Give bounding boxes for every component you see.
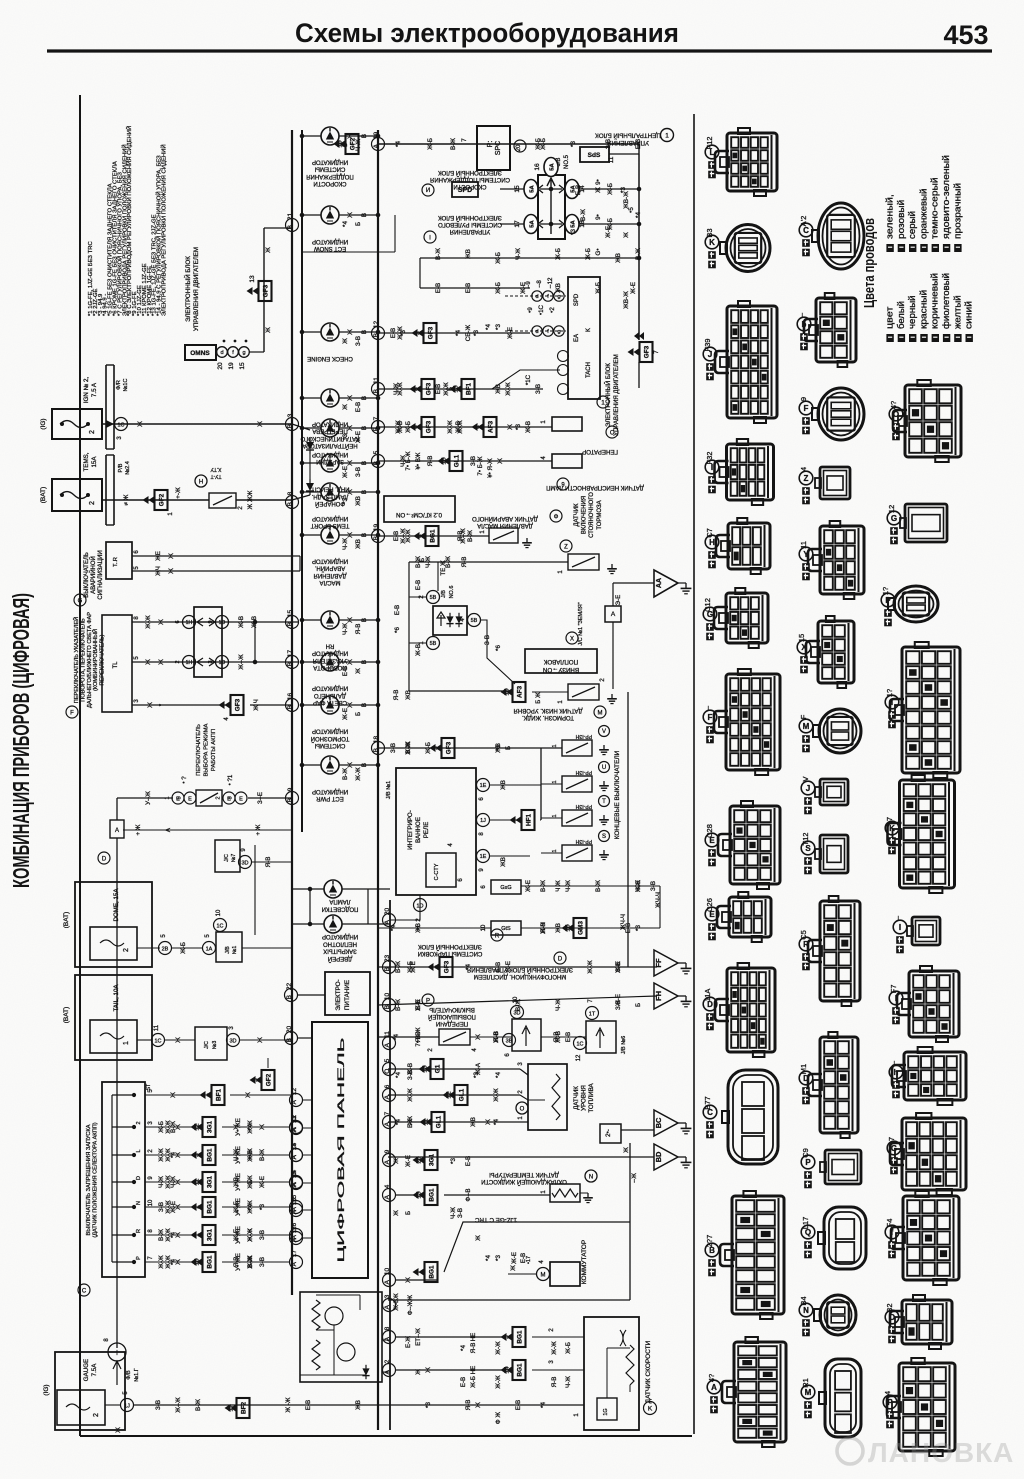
- svg-text:GM3: GM3: [577, 921, 584, 935]
- svg-text:Ж: Ж: [170, 1092, 177, 1098]
- svg-text:НЕ: НЕ: [470, 1333, 477, 1342]
- svg-text:ВЫКЛЮЧАТЕЛЬ ЗАПРЕЩЕНИЯ ЗАПУСКА: ВЫКЛЮЧАТЕЛЬ ЗАПРЕЩЕНИЯ ЗАПУСКА: [86, 1124, 92, 1235]
- svg-text:B: B: [373, 389, 380, 393]
- svg-text:B: B: [373, 427, 380, 431]
- svg-text:(BAT): (BAT): [63, 1007, 70, 1024]
- svg-text:Е-В: Е-В: [520, 1253, 527, 1263]
- svg-text:Ч-Ж: Ч-Ж: [355, 139, 362, 151]
- svg-text:З-В: З-В: [158, 1202, 165, 1212]
- svg-text:Ж: Ж: [347, 489, 354, 495]
- svg-text:FH: FH: [654, 991, 663, 1001]
- svg-text:В-Ж: В-Ж: [342, 768, 349, 780]
- svg-text:Е-В: Е-В: [465, 1156, 472, 1166]
- svg-text:*4: *4: [247, 1124, 254, 1130]
- svg-text:Е-В: Е-В: [415, 580, 422, 590]
- svg-text:ТОРМОЗН. ЖИДК.: ТОРМОЗН. ЖИДК.: [522, 714, 574, 720]
- svg-text:ЖВ: ЖВ: [615, 253, 622, 263]
- svg-text:G1: G1: [434, 1064, 441, 1073]
- svg-text:(КОМБИНИРОВАННЫЙ: (КОМБИНИРОВАННЫЙ: [91, 629, 99, 691]
- svg-text:№1C: №1C: [123, 379, 129, 392]
- svg-text:В-Ж: В-Ж: [170, 1121, 177, 1133]
- svg-text:Ч-Ж: Ч-Ж: [393, 383, 400, 395]
- svg-text:*3: *3: [259, 1204, 266, 1210]
- svg-text:J/C: J/C: [224, 854, 230, 862]
- svg-text:У--Ж: У--Ж: [145, 791, 152, 805]
- svg-text:BG1: BG1: [206, 1200, 213, 1214]
- svg-text:GxG: GxG: [500, 885, 511, 891]
- svg-text:И: И: [426, 188, 430, 194]
- svg-text:В-Ж: В-Ж: [195, 1399, 202, 1411]
- svg-text:Ж: Ж: [425, 1367, 432, 1373]
- svg-text:№3: №3: [212, 1041, 218, 1050]
- svg-text:Ж: Ж: [145, 659, 152, 665]
- svg-text:N: N: [136, 1201, 142, 1205]
- svg-text:*4: *4: [247, 1204, 254, 1210]
- svg-text:BC: BC: [654, 1117, 663, 1128]
- svg-text:Ж-ВЖ: Ж-ВЖ: [393, 1293, 400, 1311]
- svg-text:ЖВ: ЖВ: [233, 1177, 240, 1187]
- svg-text:BG1: BG1: [428, 1265, 435, 1279]
- svg-text:Ч-Ж: Ч-Ж: [565, 880, 572, 892]
- svg-text:РР-IЗН: РР-IЗН: [575, 769, 592, 775]
- svg-text:розовый: розовый: [896, 200, 907, 239]
- svg-text:Б: Б: [505, 746, 512, 750]
- svg-text:синий: синий: [964, 301, 975, 329]
- svg-text:ЖВ: ЖВ: [405, 690, 412, 700]
- svg-text:F: F: [70, 711, 74, 717]
- svg-text:S: S: [602, 834, 606, 840]
- svg-text:C-CTY: C-CTY: [434, 863, 440, 880]
- svg-text:Я-В: Я-В: [465, 1400, 472, 1411]
- svg-text:ПЕРЕКЛЮЧАТЕЛЬ): ПЕРЕКЛЮЧАТЕЛЬ): [100, 634, 106, 685]
- svg-text:Ф--В: Ф--В: [465, 1189, 472, 1202]
- svg-text:ЭЛЕКТРОПРИВОДА РЕГУЛИРОВКИ ПОЛ: ЭЛЕКТРОПРИВОДА РЕГУЛИРОВКИ ПОЛОЖЕНИЯ СИД…: [160, 144, 168, 316]
- svg-text:7.5A: 7.5A: [91, 1363, 98, 1377]
- svg-text:3: 3: [228, 796, 234, 799]
- svg-text:Ч-Ж: Ч-Ж: [342, 538, 349, 550]
- svg-text:1: 1: [552, 849, 558, 852]
- svg-text:Схемы электрооборудования: Схемы электрооборудования: [295, 18, 679, 48]
- svg-text:B3: B3: [705, 228, 714, 237]
- svg-text:Ж-Е: Ж-Е: [525, 880, 532, 892]
- svg-text:Е-В: Е-В: [435, 283, 442, 293]
- svg-text:1J: 1J: [124, 1404, 130, 1410]
- svg-text:№1.Г: №1.Г: [134, 1368, 140, 1381]
- svg-text:ОХЛАЖДАЮЩЕЙ ЖИДКОСТИ: ОХЛАЖДАЮЩЕЙ ЖИДКОСТИ: [481, 1178, 567, 1186]
- svg-text:Я-В: Я-В: [265, 857, 272, 868]
- svg-text:SPD: SPD: [574, 293, 580, 306]
- svg-text:серый: серый: [907, 211, 918, 239]
- svg-text:4: 4: [799, 467, 808, 471]
- svg-text:З-В: З-В: [605, 139, 612, 149]
- svg-text:Ж: Ж: [347, 617, 354, 623]
- svg-text:J/B: J/B: [441, 590, 447, 598]
- svg-text:1: 1: [552, 814, 558, 817]
- svg-text:Ф/R: Ф/R: [116, 380, 122, 390]
- svg-text:*3: *3: [495, 745, 502, 751]
- svg-text:ПИТАНИЕ: ПИТАНИЕ: [344, 980, 351, 1010]
- svg-text:A: A: [611, 611, 616, 618]
- svg-text:ВЫКЛЮЧАТЕЛЬ: ВЫКЛЮЧАТЕЛЬ: [429, 1006, 475, 1012]
- svg-text:Ж-Е: Ж-Е: [511, 1252, 518, 1264]
- svg-text:1C: 1C: [576, 1042, 583, 1048]
- svg-text:M: M: [541, 1273, 546, 1279]
- svg-text:SPC: SPC: [495, 141, 502, 155]
- svg-text:E: E: [188, 797, 192, 803]
- svg-text:Ж: Ж: [265, 247, 272, 253]
- svg-text:20: 20: [384, 908, 391, 916]
- svg-text:В: В: [361, 330, 368, 334]
- svg-text:НЕ: НЕ: [470, 1366, 477, 1375]
- svg-text:*4: *4: [393, 1034, 400, 1040]
- svg-text:1?: 1?: [881, 587, 890, 595]
- svg-text:Ж-Е: Ж-Е: [355, 431, 362, 443]
- svg-text:З--Е: З--Е: [257, 792, 264, 804]
- svg-text:ЖВ: ЖВ: [495, 384, 502, 394]
- svg-text:Ж-Е: Ж-Е: [630, 282, 637, 294]
- svg-text:RH: RH: [326, 642, 335, 648]
- svg-text:K: K: [648, 1406, 653, 1413]
- svg-text:G•: G•: [595, 249, 602, 256]
- svg-text:BG1: BG1: [206, 1148, 213, 1162]
- svg-text:Ж: Ж: [393, 1158, 400, 1164]
- svg-text:Б: Б: [247, 1180, 254, 1184]
- svg-text:В-Ж: В-Ж: [247, 1256, 254, 1268]
- svg-text:B2: B2: [885, 1303, 894, 1312]
- svg-text:C9: C9: [801, 1148, 810, 1158]
- svg-text:ST: ST: [146, 1084, 152, 1090]
- svg-text:МАСЛА: МАСЛА: [320, 579, 341, 585]
- svg-text:CHECK ENGINE: CHECK ENGINE: [307, 355, 353, 361]
- svg-text:ЕТ--Ж: ЕТ--Ж: [415, 1328, 422, 1346]
- svg-text:Ж-Ж: Ж-Ж: [158, 1148, 165, 1162]
- svg-text:¥• Я-Ж: ¥• Я-Ж: [487, 458, 494, 478]
- svg-text:В-Ж: В-Ж: [467, 530, 474, 542]
- svg-text:В: В: [361, 213, 368, 217]
- svg-text:20: 20: [286, 1026, 293, 1034]
- svg-text:Я-В: Я-В: [415, 1032, 422, 1043]
- svg-text:2: 2: [89, 501, 96, 505]
- svg-text:ДАТЧИК СКОРОСТИ: ДАТЧИК СКОРОСТИ: [645, 1340, 652, 1403]
- svg-text:F: F: [799, 714, 808, 719]
- svg-text:BF2: BF2: [240, 1402, 247, 1415]
- svg-text:A: A: [291, 1099, 298, 1104]
- svg-text:12: 12: [291, 1088, 298, 1096]
- svg-text:Ж-Е: Ж-Е: [342, 708, 349, 720]
- svg-text:A: A: [384, 1159, 391, 1164]
- svg-text:Я-В: Я-В: [461, 557, 468, 568]
- svg-text:(ДАТЧИК ПОЛОЖЕНИЯ СЕЛЕКТОРА АК: (ДАТЧИК ПОЛОЖЕНИЯ СЕЛЕКТОРА АКПП): [93, 1122, 99, 1237]
- svg-text:В-Ж: В-Ж: [635, 248, 642, 260]
- svg-text:5: 5: [384, 1058, 391, 1062]
- svg-text:b: b: [802, 320, 807, 329]
- svg-text:K: K: [889, 824, 895, 833]
- svg-text:GL1: GL1: [435, 1115, 442, 1128]
- svg-text:В-Ж: В-Ж: [540, 880, 547, 892]
- svg-text:(IG): (IG): [40, 418, 47, 429]
- svg-text:10: 10: [148, 1199, 154, 1206]
- svg-text:*3: *3: [620, 187, 627, 193]
- svg-text:BG1: BG1: [206, 1255, 213, 1269]
- svg-text:1: 1: [552, 744, 558, 747]
- svg-text:Б: Б: [447, 387, 454, 391]
- svg-text:УПРАВЛЕНИЯ ДВИГАТЕЛЕМ: УПРАВЛЕНИЯ ДВИГАТЕЛЕМ: [614, 354, 620, 436]
- svg-text:2?7: 2?7: [705, 1235, 714, 1248]
- svg-text:Ж: Ж: [257, 1037, 264, 1043]
- svg-text:BG1: BG1: [429, 529, 436, 543]
- svg-text:TACH: TACH: [586, 362, 592, 378]
- svg-text:СИСТЕМЫ: СИСТЕМЫ: [315, 166, 346, 172]
- svg-text:FF: FF: [654, 958, 663, 968]
- svg-text:Ж-Ж: Ж-Ж: [355, 767, 362, 781]
- svg-text:ПОВОРОТА, ПЕРЕКЛЮЧАТЕЛЬ: ПОВОРОТА, ПЕРЕКЛЮЧАТЕЛЬ: [80, 618, 86, 702]
- svg-text:З-В: З-В: [355, 336, 362, 346]
- svg-text:ЭЛЕКТРОННЫЙ БЛОК: ЭЛЕКТРОННЫЙ БЛОК: [604, 363, 612, 427]
- svg-text:+-Ж: +-Ж: [175, 487, 182, 499]
- svg-text:Ж: Ж: [158, 619, 165, 625]
- svg-text:B77: B77: [703, 1096, 712, 1109]
- svg-text:Ж: Ж: [257, 421, 264, 427]
- svg-text:*4: *4: [170, 1259, 177, 1265]
- svg-text:20: 20: [217, 362, 224, 370]
- svg-text:g: g: [557, 329, 560, 335]
- svg-text:B: B: [373, 536, 380, 540]
- svg-text:ВЫБОРА РЕЖИМА: ВЫБОРА РЕЖИМА: [203, 723, 209, 776]
- svg-text:Ж--Ж: Ж--Ж: [238, 654, 245, 670]
- svg-text:Ч-Ж: Ч-Ж: [233, 1149, 240, 1161]
- svg-text:d: d: [220, 350, 223, 356]
- svg-text:9: 9: [287, 787, 294, 791]
- svg-text:МНОГОФУНКЦИОН. ДИСПЛЕЕМ: МНОГОФУНКЦИОН. ДИСПЛЕЕМ: [474, 973, 567, 979]
- svg-text:11: 11: [799, 541, 808, 549]
- svg-text:BG1: BG1: [428, 1188, 435, 1202]
- svg-text:ИНДИКАТОР: ИНДИКАТОР: [312, 788, 348, 794]
- svg-text:зеленый,: зеленый,: [885, 194, 896, 239]
- svg-text:черный: черный: [907, 295, 918, 329]
- svg-text:коричневый: коричневый: [930, 273, 941, 329]
- svg-text:З-В: З-В: [355, 467, 362, 477]
- svg-text:B: B: [287, 662, 294, 666]
- svg-text:7: 7: [653, 350, 660, 354]
- svg-text:GL1: GL1: [458, 1088, 465, 1101]
- svg-text:Ж-Ж: Ж-Ж: [447, 420, 454, 434]
- svg-text:Ч-Ж: Ч-Ж: [342, 623, 349, 635]
- svg-text:Я-В: Я-В: [470, 1343, 477, 1354]
- svg-text:ИНДИКАТОР: ИНДИКАТОР: [312, 238, 348, 244]
- svg-text:18: 18: [373, 736, 380, 744]
- svg-text:3G1: 3G1: [206, 1121, 213, 1134]
- svg-text:P: P: [885, 596, 891, 605]
- svg-text:№1: №1: [232, 946, 238, 955]
- svg-text:1A: 1A: [206, 947, 213, 953]
- svg-text:A: A: [115, 828, 119, 834]
- svg-text:ИНДИКАТОР: ИНДИКАТОР: [312, 515, 348, 521]
- svg-text:Ж-Е: Ж-Е: [170, 1201, 177, 1213]
- svg-text:*6: *6: [495, 645, 502, 651]
- svg-text:Ж-Ж: Ж-Ж: [587, 960, 594, 974]
- svg-text:Ж-Б: Ж-Б: [405, 421, 412, 433]
- svg-text:2: 2: [136, 1121, 142, 1124]
- svg-text:• ?: • ?: [181, 776, 188, 784]
- svg-text:*4: *4: [460, 1345, 467, 1351]
- svg-text:G: G: [78, 599, 83, 605]
- svg-text:5A: 5A: [550, 162, 556, 170]
- svg-text:A: A: [384, 1279, 391, 1284]
- svg-text:ДАТЧИК: ДАТЧИК: [573, 1086, 580, 1110]
- svg-text:КАТАЛИТИЧЕСКОГО: КАТАЛИТИЧЕСКОГО: [300, 435, 359, 441]
- svg-text:Ж: Ж: [347, 395, 354, 401]
- svg-text:Ж-Е: Ж-Е: [605, 226, 612, 238]
- svg-text:•2: •2: [549, 307, 556, 313]
- svg-text:3: 3: [384, 1294, 391, 1298]
- svg-text:В-Ж: В-Ж: [395, 999, 402, 1011]
- svg-text:З-В: З-В: [155, 1400, 162, 1410]
- svg-text:В-Ж: В-Ж: [595, 880, 602, 892]
- svg-text:15: 15: [797, 634, 806, 642]
- svg-text:9: 9: [384, 1149, 391, 1153]
- svg-text:f: f: [891, 1228, 894, 1237]
- svg-text:Ж: Ж: [510, 1265, 517, 1271]
- svg-text:Е-В: Е-В: [394, 605, 401, 615]
- svg-text:желтый: желтый: [952, 295, 963, 329]
- svg-text:Ж-Б: Ж-Б: [565, 1342, 572, 1354]
- svg-text:Б: Б: [355, 222, 362, 226]
- svg-text:фиолетовый: фиолетовый: [941, 273, 952, 329]
- svg-text:F4: F4: [885, 1219, 894, 1228]
- svg-text:1: 1: [123, 1041, 130, 1045]
- svg-text:AA: AA: [656, 578, 663, 588]
- svg-text:В-Ж: В-Ж: [445, 556, 452, 568]
- svg-text:Ж: Ж: [623, 1147, 630, 1153]
- svg-text:2: 2: [384, 1359, 391, 1363]
- svg-text:*8 С ЭЛЕКТРОПРИВОДОМ РЕГУЛИРОВ: *8 С ЭЛЕКТРОПРИВОДОМ РЕГУЛИРОВКИ ПОЛОЖЕН…: [125, 126, 133, 316]
- svg-text:Ж: Ж: [475, 1034, 482, 1040]
- svg-text:C26: C26: [705, 898, 714, 912]
- svg-text:ЭЛЕКТРОННЫЙ БЛОК: ЭЛЕКТРОННЫЙ БЛОК: [438, 169, 502, 177]
- svg-text:¥• ВЖ: ¥• ВЖ: [415, 452, 422, 469]
- svg-text:5B: 5B: [471, 618, 478, 624]
- svg-text:d: d: [535, 329, 538, 335]
- svg-text:Е-В: Е-В: [465, 283, 472, 293]
- svg-text:Ж-Б: Ж-Б: [495, 282, 502, 294]
- svg-text:X: X: [570, 637, 574, 643]
- svg-text:*3: *3: [425, 1402, 432, 1408]
- svg-text:OMNS: OMNS: [190, 350, 210, 357]
- svg-text:Е-В: Е-В: [515, 1400, 522, 1410]
- svg-text:C7: C7: [705, 528, 714, 538]
- svg-text:≠ Ж: ≠ Ж: [123, 494, 130, 505]
- svg-text:SdS: SdS: [588, 152, 601, 159]
- svg-text:d: d: [535, 294, 538, 300]
- svg-text:17: 17: [287, 650, 294, 658]
- svg-text:1: 1: [165, 796, 171, 799]
- svg-text:N: N: [589, 1175, 593, 1181]
- svg-text:Ж-Ж: Ж-Ж: [505, 382, 512, 396]
- svg-text:1C: 1C: [117, 423, 124, 429]
- svg-text:СИСТЕМЫ РУЛЕВОГО: СИСТЕМЫ РУЛЕВОГО: [438, 221, 502, 227]
- svg-text:Ж: Ж: [259, 1124, 266, 1130]
- svg-text:В-Ж: В-Ж: [415, 556, 422, 568]
- svg-text:1T: 1T: [589, 1012, 596, 1018]
- svg-text:*3: *3: [342, 498, 349, 504]
- svg-text:ЖЕ: ЖЕ: [155, 551, 162, 561]
- svg-text:J: J: [806, 784, 810, 793]
- svg-text:Ж: Ж: [347, 659, 354, 665]
- svg-text:B: B: [287, 705, 294, 709]
- svg-text:З-В: З-В: [615, 1000, 622, 1010]
- svg-text:SPD: SPD: [458, 187, 472, 194]
- svg-text:Е-В: Е-В: [305, 1400, 312, 1410]
- svg-text:*3: *3: [515, 424, 522, 430]
- svg-text:*3: *3: [635, 925, 642, 931]
- svg-text:ГЕНЕРАТОР: ГЕНЕРАТОР: [582, 448, 618, 455]
- svg-text:С: С: [610, 431, 615, 437]
- svg-text:15A: 15A: [91, 456, 98, 468]
- svg-text:ЛАМПА: ЛАМПА: [329, 898, 350, 904]
- svg-text:GF3: GF3: [425, 420, 432, 433]
- svg-text:8: 8: [384, 1326, 391, 1330]
- svg-text:Е-В: Е-В: [495, 962, 502, 972]
- svg-text:I: I: [429, 235, 431, 242]
- svg-text:15: 15: [287, 610, 294, 618]
- svg-text:L17: L17: [801, 1217, 810, 1230]
- svg-text:Ж: Ж: [115, 1427, 122, 1433]
- svg-text:J/B №6: J/B №6: [621, 1036, 627, 1054]
- svg-text:h: h: [894, 1068, 899, 1077]
- svg-text:F12: F12: [705, 137, 714, 150]
- svg-text:R: R: [803, 940, 809, 949]
- svg-text:ЦИФРОВАЯ ПАНЕЛЬ: ЦИФРОВАЯ ПАНЕЛЬ: [336, 1038, 347, 1263]
- svg-text:ПЕРЕДАЧИ: ПЕРЕДАЧИ: [436, 1020, 468, 1026]
- svg-text:СИСТЕМЫ ПАРКОВКИ: СИСТЕМЫ ПАРКОВКИ: [418, 950, 483, 956]
- svg-text:Я-В: Я-В: [427, 456, 434, 467]
- svg-text:Ж-Б: Ж-Б: [470, 1376, 477, 1388]
- svg-text:ядовито-зеленый: ядовито-зеленый: [941, 155, 952, 239]
- svg-text:В: В: [361, 618, 368, 622]
- svg-text:Ф: Ф: [554, 515, 559, 521]
- svg-text:•5: •5: [628, 207, 635, 213]
- svg-text:ДАТЧИК АВАРИЙНОГО: ДАТЧИК АВАРИЙНОГО: [472, 515, 538, 523]
- svg-text:Б: Б: [355, 712, 362, 716]
- svg-text:IGN № 2,: IGN № 2,: [83, 377, 90, 404]
- svg-text:Я-В: Я-В: [493, 1032, 500, 1043]
- svg-text:7: 7: [384, 1111, 391, 1115]
- svg-text:Е-В: Е-В: [390, 328, 397, 338]
- svg-text:4?: 4?: [889, 401, 898, 409]
- svg-text:СЕ-Ж: СЕ-Ж: [465, 325, 472, 342]
- svg-text:В: В: [361, 533, 368, 537]
- svg-text:ЗАКРЫТЫХ: ЗАКРЫТЫХ: [323, 948, 356, 954]
- svg-text:Ж: Ж: [347, 212, 354, 218]
- svg-text:5B: 5B: [430, 595, 437, 601]
- svg-text:Ч-Ж: Ч-Ж: [565, 1376, 572, 1388]
- svg-text:В: В: [361, 461, 368, 465]
- svg-text:B: B: [287, 798, 294, 802]
- svg-text:В: В: [361, 660, 368, 664]
- svg-text:Ж: Ж: [475, 1235, 482, 1241]
- svg-text:9•: 9•: [595, 214, 602, 220]
- svg-text:2: 2: [93, 1413, 100, 1417]
- svg-text:GF3: GF3: [643, 345, 650, 358]
- svg-text:РР-IЗН: РР-IЗН: [575, 838, 592, 844]
- svg-text:19: 19: [373, 132, 380, 140]
- svg-text:АВАРИЙНОЙ: АВАРИЙНОЙ: [89, 556, 97, 594]
- svg-text:1: 1: [665, 133, 669, 140]
- svg-text:12: 12: [576, 1054, 582, 1061]
- svg-text:Ж-Ж: Ж-Ж: [457, 420, 464, 434]
- svg-text:11: 11: [154, 1024, 160, 1031]
- svg-text:*3: *3: [495, 1255, 502, 1261]
